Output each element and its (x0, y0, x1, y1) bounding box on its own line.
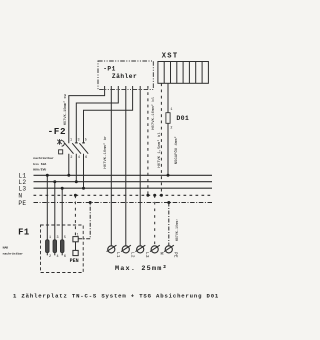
wire meter 6 down to terminal circle L3 (139, 86, 141, 246)
svg-text:Max. 25mm²: Max. 25mm² (115, 265, 168, 273)
junction dots (46, 174, 171, 204)
svg-text:HUA/EVU: HUA/EVU (33, 168, 46, 172)
wire meter 4 down to terminal circle L2 (125, 86, 127, 246)
svg-text:4: 4 (78, 156, 80, 160)
PEN wire from N busbar (dashed) (74, 195, 76, 236)
svg-text:3: 3 (78, 139, 80, 143)
node PEN-N (74, 194, 77, 197)
svg-text:L3: L3 (18, 185, 26, 192)
svg-text:L3: L3 (144, 252, 149, 258)
svg-text:L1: L1 (115, 252, 120, 258)
wire XST L via fuse D01 down to L1 busbar (167, 83, 169, 175)
svg-text:H07VK 1,5mm² bl: H07VK 1,5mm² bl (157, 132, 162, 168)
fuse F1 pole 1 body (46, 240, 50, 253)
wire meter 2 down to terminal circle L1 (110, 86, 112, 246)
meter box P1 (dash-dot outline) (98, 61, 153, 89)
svg-text:1: 1 (49, 236, 51, 240)
terminal circle L2 (121, 245, 131, 253)
svg-text:5: 5 (85, 139, 87, 143)
node F1.5-L3 (61, 187, 64, 190)
breaker F2 trip star symbol (57, 139, 61, 145)
svg-text:1: 1 (70, 139, 72, 143)
svg-text:D01: D01 (176, 115, 189, 122)
breaker F2 thermal release square (59, 150, 63, 154)
node termPE-PE (167, 201, 170, 204)
svg-text:F1: F1 (18, 227, 30, 237)
fuse F1 pole 2 wire (54, 182, 56, 256)
node xstN-N (160, 194, 163, 197)
svg-text:PE: PE (18, 200, 26, 207)
svg-text:-F2: -F2 (48, 126, 67, 137)
PEN terminal square upper (73, 237, 78, 242)
node PElink-PE (89, 201, 92, 204)
svg-text:NSGAFÖU 4mm²: NSGAFÖU 4mm² (174, 136, 179, 164)
svg-text:nachrüstbar: nachrüstbar (3, 251, 24, 255)
busbar N (dashed) (34, 194, 213, 196)
wire between PEN squares (75, 242, 77, 251)
svg-text:H07VK-10mm² sw: H07VK-10mm² sw (64, 93, 68, 125)
svg-text:4: 4 (57, 255, 59, 259)
svg-text:2: 2 (170, 127, 172, 131)
busbar PE (dash-dot) (34, 202, 213, 204)
wire meter 3 staircase to F2 pole 2 (76, 86, 118, 143)
svg-text:Zähler: Zähler (112, 73, 137, 80)
svg-text:6: 6 (64, 255, 66, 259)
node F1.3-L2 (53, 180, 56, 183)
svg-text:N: N (18, 193, 22, 200)
svg-text:bis 63A: bis 63A (33, 162, 46, 166)
svg-text:1 Zählerplatz TN-C-S System +: 1 Zählerplatz TN-C-S System + TSG Absich… (13, 293, 219, 300)
svg-text:PE: PE (173, 252, 178, 258)
svg-text:2: 2 (70, 156, 72, 160)
fuse F1 pole 3 wire (61, 188, 63, 255)
wire meter 5 staircase to F2 pole 3 (84, 86, 133, 143)
node F1.1-L1 (46, 174, 49, 177)
terminal circle L3 (136, 245, 146, 253)
svg-text:HAK: HAK (3, 246, 9, 250)
fuse F1 pole 3 body (60, 240, 64, 253)
svg-text:2: 2 (49, 255, 51, 259)
fuse F1 pole 1 wire (46, 175, 48, 255)
breaker F2 contact arc pole 1 (62, 141, 65, 147)
wire PE busbar to terminal circle PE (dash-dot) (168, 203, 170, 246)
svg-text:H07VK-10mm² bl: H07VK-10mm² bl (151, 96, 156, 130)
svg-text:-P1: -P1 (103, 66, 116, 73)
wire N busbar to terminal circle N (dashed) (154, 195, 156, 246)
node F2.6-L3 (82, 187, 85, 190)
svg-text:XST: XST (162, 52, 179, 60)
busbar L3 (34, 187, 213, 189)
terminal circle L1 (107, 245, 117, 253)
svg-text:H07VK-16mm²: H07VK-16mm² (175, 219, 179, 242)
PE link from PEN square to PE busbar (dash-dot) (78, 203, 90, 239)
breaker F2 blades and bottom wires (65, 143, 89, 188)
wire meter 1 staircase to F2 pole 1 (69, 86, 105, 143)
node termN-N (153, 194, 156, 197)
busbar L2 (34, 181, 213, 183)
terminal circle PE (164, 245, 174, 253)
node D01-L1 (167, 174, 170, 177)
terminal circle N (150, 245, 160, 253)
svg-text:H07VK-10mm² br: H07VK-10mm² br (103, 136, 108, 169)
svg-text:3: 3 (57, 236, 59, 240)
wire meter N (dashed) down to N busbar (147, 86, 149, 195)
svg-text:1: 1 (170, 108, 172, 112)
PEN terminal square lower (73, 250, 78, 255)
svg-text:5: 5 (64, 236, 66, 240)
node F2.2-L1 (67, 174, 70, 177)
svg-text:PEN: PEN (70, 258, 79, 264)
terminal block XST (158, 62, 209, 84)
wire XST N (dashed) down to N busbar (160, 83, 162, 195)
F1 box (dashed outline) (41, 225, 84, 273)
svg-text:nachrüstbar: nachrüstbar (33, 156, 54, 160)
busbar L1 (34, 174, 213, 176)
node meterN-N (146, 194, 149, 197)
svg-text:1: 1 (77, 233, 79, 237)
fuse F1 pole 2 body (53, 240, 57, 253)
node F2.4-L2 (75, 180, 78, 183)
svg-text:N: N (159, 252, 164, 255)
svg-text:6: 6 (85, 156, 87, 160)
fuse D01 body (166, 113, 170, 124)
svg-text:L2: L2 (130, 252, 135, 258)
